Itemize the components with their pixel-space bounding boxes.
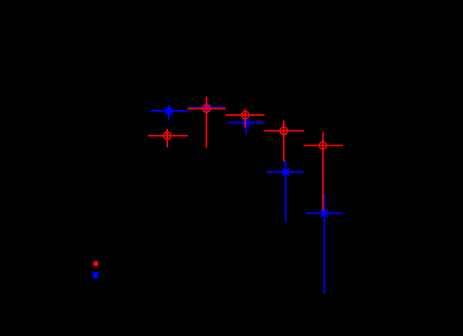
blue data point B1 [150, 105, 188, 121]
red data point R5 [303, 133, 343, 211]
blue data point B5 [306, 194, 343, 294]
legend marker blue star [93, 272, 99, 278]
blue data point B4 [267, 160, 304, 223]
red data point R3 [225, 109, 264, 127]
legend marker red filled circle [93, 261, 99, 267]
blue data point B2 [189, 102, 226, 114]
red data point R1 [148, 129, 188, 148]
red data point R2 [187, 96, 225, 147]
blue data point B3 [228, 117, 265, 134]
red data point R4 [264, 120, 304, 161]
